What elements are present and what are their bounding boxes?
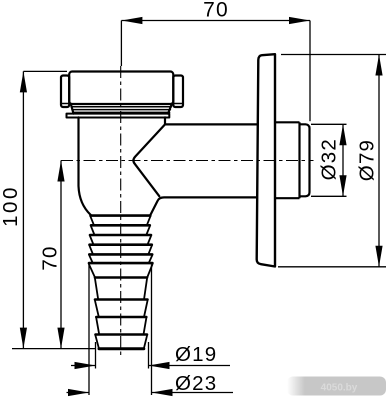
svg-text:Ø32: Ø32 [318,138,341,180]
svg-text:Ø19: Ø19 [175,343,217,366]
svg-text:100: 100 [0,185,22,227]
svg-text:4050.by: 4050.by [321,383,358,394]
svg-text:70: 70 [203,0,229,22]
svg-text:Ø79: Ø79 [356,139,379,181]
svg-text:70: 70 [39,245,62,270]
svg-text:Ø23: Ø23 [175,372,217,395]
